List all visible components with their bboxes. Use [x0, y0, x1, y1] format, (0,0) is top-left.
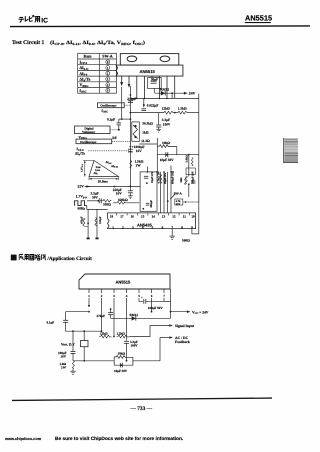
cluster vertical lead 3	[167, 172, 169, 213]
svg-text:50V: 50V	[176, 203, 181, 206]
svg-text:33μF 50V: 33μF 50V	[151, 171, 154, 183]
resistor 1.8 vertical	[72, 361, 74, 369]
page edge index tab	[283, 138, 298, 163]
waveform triangle	[89, 161, 119, 177]
svg-text:www.chipdocs.com: www.chipdocs.com	[4, 436, 42, 441]
app wire pin2	[101, 298, 103, 331]
svg-text:IC: IC	[41, 16, 48, 24]
capacitor 10uF box	[148, 78, 162, 89]
AN5435 top pin numbers	[110, 214, 195, 218]
svg-text:470μF: 470μF	[81, 216, 84, 224]
switch box A	[175, 199, 183, 205]
table switch position circles	[106, 60, 110, 93]
svg-text:18.9ms: 18.9ms	[98, 180, 109, 184]
svg-text:10μF: 10μF	[151, 77, 158, 81]
svg-text:RM12: RM12	[160, 88, 169, 92]
ground under 3.3uF	[156, 127, 161, 132]
resistor 12k app	[99, 335, 111, 338]
capacitor 1000uF plates	[128, 149, 133, 152]
svg-text:4.7kΩ 1W: 4.7kΩ 1W	[157, 171, 160, 183]
svg-text:15: 15	[141, 214, 145, 218]
branch resistor left	[83, 209, 88, 237]
app IC pin stubs	[89, 289, 164, 293]
squarewave feed wire	[87, 200, 99, 202]
app wire pin7	[164, 298, 171, 301]
digital voltmeter box	[75, 126, 111, 134]
stub from 10uF box	[153, 89, 155, 94]
svg-text:100μF 10V: 100μF 10V	[192, 171, 195, 184]
svg-text:11: 11	[183, 214, 186, 218]
svg-text:AN5435: AN5435	[137, 222, 152, 227]
IC U2 AN5435 body	[108, 213, 196, 229]
cluster vertical lead 2	[163, 172, 165, 213]
svg-text:17: 17	[120, 214, 124, 218]
svg-text:16V: 16V	[136, 149, 142, 153]
svg-text:10μF 50V: 10μF 50V	[114, 369, 128, 373]
svg-text:560Ω: 560Ω	[182, 239, 190, 243]
main left rail wire	[129, 86, 131, 187]
capacitor 10uF 50V app	[120, 363, 122, 368]
12V rail wire	[85, 186, 141, 188]
svg-text:11.3Ω: 11.3Ω	[141, 139, 150, 143]
svg-text:16V: 16V	[116, 192, 122, 196]
wire pin4 to bottom rail	[126, 343, 128, 361]
oscilloscope box 1	[98, 103, 125, 108]
svg-text:12kΩ: 12kΩ	[162, 107, 170, 111]
application section heading square	[11, 255, 17, 261]
RC loop 10k app	[114, 338, 160, 366]
header title テレビ用IC (drawn glyphs)	[19, 15, 48, 23]
right rail A wire	[171, 93, 173, 98]
svg-text:1W: 1W	[61, 366, 67, 370]
resistor 1.5k lower	[130, 161, 132, 169]
svg-text:270μF: 270μF	[127, 97, 136, 101]
svg-text:SW-A: SW-A	[174, 191, 183, 195]
svg-text:Feedback: Feedback	[175, 340, 190, 344]
Vcc 24V arrow	[171, 310, 209, 315]
18.9ms dimension	[89, 177, 119, 181]
capacitor 100uF 50V app	[144, 299, 146, 304]
svg-text:100μF: 100μF	[99, 216, 102, 224]
svg-text:AC / DC: AC / DC	[175, 336, 189, 340]
svg-text:/Application Circuit: /Application Circuit	[46, 256, 92, 262]
resistor 12k	[164, 111, 173, 114]
squarewave lower bus	[87, 206, 108, 210]
svg-text:16V: 16V	[61, 355, 67, 359]
outer right rail wire	[192, 94, 199, 234]
wire DY	[83, 331, 85, 361]
resistor 820k	[113, 201, 139, 204]
svg-text:10: 10	[191, 214, 195, 218]
capacitor 3.3uF 160V app	[124, 341, 129, 343]
triangle height dim	[83, 161, 94, 177]
cluster capacitor 680uF	[146, 203, 150, 205]
svg-text:18: 18	[110, 214, 114, 218]
capacitor 10uF plates	[151, 81, 157, 83]
vert DY box	[81, 341, 89, 347]
wire pin9 to rail	[192, 229, 199, 234]
svg-text:33μF 50V: 33μF 50V	[164, 172, 167, 184]
svg-text:DF: DF	[112, 136, 117, 140]
oscilloscope box 2	[76, 139, 112, 144]
cluster vertical lead 4	[170, 172, 172, 213]
svg-text:+: +	[132, 145, 134, 149]
svg-text:12kΩ: 12kΩ	[100, 332, 108, 336]
ground app	[70, 369, 75, 375]
IC pins	[122, 76, 175, 98]
dashed probe wire 4	[88, 150, 129, 152]
24V supply arrow	[184, 92, 187, 95]
page footer rule	[12, 397, 272, 401]
wire SW to rail	[183, 191, 199, 202]
application heading kanji 応用回路例 (drawn glyphs)	[19, 254, 46, 260]
AN5435 bottom pin numbers	[112, 225, 193, 229]
header rule	[10, 25, 310, 27]
signal input arrow	[130, 324, 195, 337]
svg-text:56Ω: 56Ω	[180, 177, 183, 183]
capacitor 0.1uF	[117, 119, 121, 130]
svg-text:Signal Input: Signal Input	[175, 324, 195, 328]
app wire pin3	[113, 298, 115, 337]
svg-text:Test Circuit 1: Test Circuit 1	[12, 40, 45, 46]
dashed probe wire 1	[124, 104, 130, 106]
cluster top stubs	[148, 166, 172, 172]
mounting hole right	[160, 56, 170, 62]
svg-text:+: +	[141, 296, 143, 300]
dashed probe wire 3	[112, 140, 131, 142]
wire resistor row	[130, 112, 198, 114]
svg-text:3.6kΩ: 3.6kΩ	[186, 154, 189, 162]
svg-text:10kΩ: 10kΩ	[118, 351, 126, 355]
svg-text:Item: Item	[84, 54, 93, 59]
switch lever	[170, 194, 175, 200]
capacitor 270uF app	[108, 313, 113, 315]
wire transistor to RC loop	[139, 143, 157, 145]
svg-text:0.022μF: 0.022μF	[147, 103, 159, 107]
capacitor 10uF plates	[166, 152, 168, 157]
cluster capacitor 33uF	[144, 176, 148, 178]
resistor 1.2k app	[117, 335, 130, 338]
pin2 current arrow	[128, 84, 131, 88]
svg-text:24V: 24V	[189, 92, 196, 96]
svg-text:1W: 1W	[136, 163, 142, 167]
IC U1 AN5515 package body	[116, 65, 183, 76]
svg-text:1.2kΩ: 1.2kΩ	[117, 332, 126, 336]
svg-text:(ICP-9, ΔI9-11, ΔI9-6, ΔI9/Ta,: (ICP-9, ΔI9-11, ΔI9-6, ΔI9/Ta, VREG, fOS…	[50, 40, 145, 46]
wire transistor collector rail	[130, 185, 132, 187]
app IC pin numbers	[88, 294, 165, 298]
svg-text:13: 13	[162, 214, 166, 218]
branch resistor right	[95, 209, 97, 237]
resistor 1.5k	[178, 111, 187, 114]
wire 0.1uF top	[119, 118, 131, 120]
wire 100uF branch	[72, 331, 74, 360]
svg-text:Be sure to visit ChipDocs web: Be sure to visit ChipDocs web site for m…	[55, 436, 183, 442]
svg-text:160V: 160V	[163, 122, 171, 126]
svg-text:820kΩ: 820kΩ	[118, 198, 128, 202]
svg-text:60Hz: 60Hz	[78, 207, 86, 211]
cluster vertical lead 1	[160, 172, 162, 213]
resistor 3.6k vertical	[191, 158, 193, 166]
svg-text:RM12: RM12	[130, 313, 139, 317]
svg-text:Voltmeter: Voltmeter	[82, 130, 96, 134]
svg-text:10μF 50V: 10μF 50V	[160, 158, 174, 162]
svg-text:270μF: 270μF	[97, 314, 106, 318]
svg-text:12V: 12V	[77, 185, 84, 189]
rail B wire	[188, 154, 190, 156]
capacitor 220uF	[128, 187, 133, 193]
svg-text:1.2VP-P: 1.2VP-P	[81, 163, 85, 172]
svg-text:36.3kΩ: 36.3kΩ	[142, 122, 153, 126]
app wire pin5	[139, 298, 143, 301]
squarewave symbol	[75, 201, 87, 206]
component cluster box	[140, 172, 157, 211]
svg-text:AN5515: AN5515	[140, 69, 156, 74]
resistor vertical on rail B	[185, 176, 187, 184]
bus junction dots	[136, 98, 168, 100]
app wire pin4	[126, 298, 128, 341]
svg-text:Oscilloscope: Oscilloscope	[80, 140, 97, 144]
dashed probe wire 2	[110, 129, 119, 131]
svg-text:50V: 50V	[92, 195, 98, 199]
wire pin1 down	[121, 87, 123, 119]
svg-text:160V: 160V	[131, 344, 139, 348]
AC DC feedback arrow	[160, 336, 190, 344]
app left branch wire	[66, 312, 102, 332]
svg-text:16: 16	[131, 214, 135, 218]
pin1 current arrow	[120, 82, 123, 86]
capacitor 0.022uF	[142, 103, 159, 110]
resistor vertical small	[184, 177, 186, 185]
IC U3 AN5515 app body	[79, 274, 170, 289]
svg-text:680μF 50Ω: 680μF 50Ω	[171, 170, 174, 184]
svg-text:SW-A: SW-A	[102, 54, 112, 59]
capacitor 3.3uF 160V	[156, 113, 161, 127]
svg-text:330Ω: 330Ω	[103, 202, 111, 206]
transistor block Q1	[132, 122, 140, 141]
IC U1 AN5515 package tab	[120, 54, 179, 66]
mounting hole left	[127, 56, 137, 62]
svg-text:10kΩ: 10kΩ	[162, 141, 170, 145]
svg-text:Oscilloscope: Oscilloscope	[100, 104, 117, 108]
app right rail	[170, 289, 172, 318]
app wire pin6	[151, 298, 153, 312]
ground pin7	[169, 229, 175, 240]
bottom rail app	[73, 360, 114, 362]
svg-text:680μF: 680μF	[150, 200, 153, 208]
svg-text:12: 12	[172, 214, 176, 218]
svg-text:0.1μF: 0.1μF	[47, 320, 55, 324]
svg-text:100μF 50V: 100μF 50V	[148, 306, 163, 310]
svg-text:— 733 —: — 733 —	[130, 406, 153, 412]
pin bus wire	[131, 97, 199, 99]
svg-text:0.1μF: 0.1μF	[107, 118, 115, 122]
capacitor 3.3uF plates	[99, 198, 101, 203]
app wire cap to rail	[146, 300, 171, 302]
wire 0.022 branch	[143, 98, 145, 107]
RC loop 10k 10uF	[157, 138, 199, 176]
diode RM12 app	[111, 309, 171, 321]
svg-text:1kΩ: 1kΩ	[142, 131, 149, 135]
junction dot on 24V line	[171, 92, 173, 94]
capacitor 10uF 10V on rail	[191, 181, 196, 183]
AN5435 top pin ticks	[117, 213, 190, 216]
switch-setting table frame	[78, 53, 117, 93]
AN5515 underline	[245, 22, 271, 23]
svg-text:1.5kΩ: 1.5kΩ	[178, 107, 187, 111]
svg-text:AN5515: AN5515	[245, 14, 272, 23]
ground under 220uF	[128, 193, 133, 199]
capacitor 270uF	[127, 94, 136, 103]
app wire pin1	[88, 298, 90, 306]
small switch box B	[186, 168, 195, 175]
svg-text:AN5515: AN5515	[116, 280, 131, 285]
svg-text:14: 14	[151, 214, 155, 218]
resistor 330	[100, 199, 111, 202]
diode RM12	[155, 91, 187, 96]
